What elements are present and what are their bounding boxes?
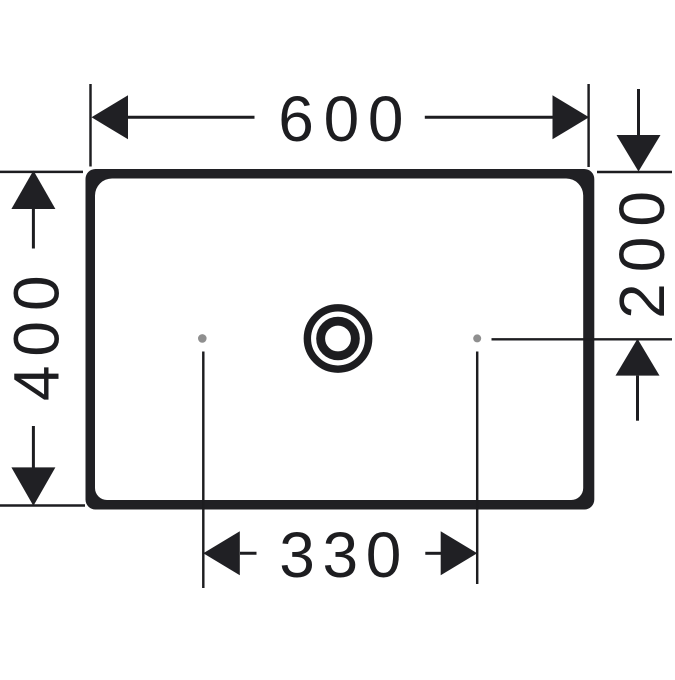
- svg-text:0: 0: [324, 83, 360, 155]
- dim330 extension line right: [476, 352, 478, 585]
- drain inner ring: [321, 321, 356, 356]
- dim330 arrow left: [203, 531, 240, 575]
- dim600 arrow left: [92, 95, 129, 139]
- svg-text:0: 0: [0, 321, 72, 357]
- dim600 arrow right: [553, 95, 590, 139]
- drain outer ring: [307, 308, 368, 369]
- svg-text:0: 0: [366, 519, 402, 591]
- svg-text:3: 3: [323, 519, 359, 591]
- dim200 line bottom tail: [636, 376, 639, 421]
- dim200 line top tail: [637, 89, 640, 136]
- dim200 extension line bottom: [492, 338, 673, 340]
- dim400 text 400 (rotated): [0, 275, 72, 401]
- dim600 extension line left: [89, 84, 91, 167]
- dim330 line right tail: [425, 552, 441, 555]
- dim200 arrow down: [617, 135, 661, 172]
- left faucet hole marker (grey dot): [198, 334, 207, 343]
- svg-text:0: 0: [0, 275, 72, 311]
- svg-text:0: 0: [606, 237, 675, 273]
- dim330 arrow right: [441, 531, 478, 575]
- dim600 text 600: [278, 83, 403, 155]
- right faucet hole marker (grey dot): [473, 334, 481, 342]
- dim400 line bottom segment: [32, 426, 35, 468]
- dim400 extension line top: [0, 171, 83, 173]
- dim200 text 200 (rotated): [606, 191, 675, 319]
- dim400 arrow down: [11, 467, 55, 506]
- svg-text:0: 0: [606, 191, 675, 227]
- dim400 arrow up: [11, 171, 55, 210]
- dim600 extension line right: [587, 84, 589, 167]
- svg-text:0: 0: [368, 83, 404, 155]
- svg-text:3: 3: [279, 519, 315, 591]
- svg-text:2: 2: [606, 283, 675, 319]
- svg-text:6: 6: [278, 83, 314, 155]
- dim600 line right segment: [425, 116, 553, 119]
- dim600 line left segment: [127, 116, 255, 119]
- dim330 text 330: [279, 519, 401, 591]
- dim200 arrow up: [616, 339, 660, 376]
- svg-text:4: 4: [0, 366, 72, 402]
- basin outer rim with inner bowl (top view outline): [86, 169, 595, 510]
- dim400 extension line bottom: [0, 504, 85, 506]
- dim400 line top segment: [32, 209, 35, 249]
- dim330 line left tail: [240, 552, 257, 555]
- dim200 extension line top: [597, 171, 672, 173]
- dim330 extension line left: [202, 352, 204, 589]
